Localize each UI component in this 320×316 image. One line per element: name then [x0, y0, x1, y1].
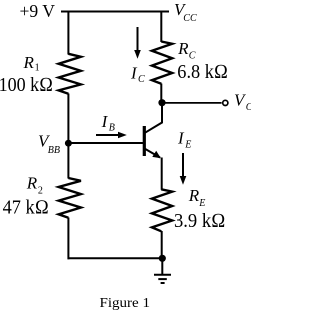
- svg-text:47 kΩ: 47 kΩ: [3, 197, 49, 219]
- label IC: [130, 64, 145, 85]
- svg-text:C: C: [246, 102, 251, 113]
- node VBB junction dot: [65, 140, 72, 147]
- wire right branch upper: [160, 11, 162, 43]
- label VCC: [174, 0, 197, 24]
- label RC: [177, 39, 196, 61]
- label VBB: [38, 132, 60, 156]
- svg-text:6.8 kΩ: 6.8 kΩ: [177, 61, 228, 83]
- transistor Q1 base bar: [143, 126, 146, 156]
- resistor RC: [152, 42, 172, 84]
- wire left branch upper: [67, 11, 69, 55]
- svg-text:CC: CC: [183, 13, 197, 24]
- svg-text:R: R: [23, 53, 35, 72]
- wire emitter down: [161, 158, 163, 190]
- svg-text:3.9 kΩ: 3.9 kΩ: [174, 210, 225, 232]
- wire collector of transistor: [145, 100, 162, 133]
- label IB: [101, 112, 115, 133]
- wire left branch middle: [67, 94, 69, 179]
- label IE: [177, 128, 191, 150]
- label VC: [234, 91, 253, 113]
- wire bottom rail: [68, 257, 163, 259]
- label R1: [23, 53, 40, 73]
- svg-text:R: R: [177, 39, 189, 58]
- svg-text:C: C: [189, 50, 196, 61]
- label RE: [188, 186, 206, 209]
- svg-text:1: 1: [35, 62, 40, 73]
- terminal VC open circle: [223, 100, 228, 105]
- node emitter-ground junction dot: [159, 255, 166, 262]
- resistor R2: [59, 178, 81, 218]
- svg-text:100 kΩ: 100 kΩ: [0, 74, 53, 96]
- label R2: [26, 174, 43, 197]
- arrow IC: [134, 27, 141, 59]
- wire RC bottom lead: [160, 84, 162, 105]
- ground: [154, 258, 171, 283]
- svg-text:2: 2: [38, 186, 43, 197]
- wire to VC terminal: [162, 102, 222, 104]
- resistor R1: [59, 54, 81, 94]
- node collector junction dot: [158, 99, 165, 106]
- svg-text:B: B: [109, 123, 115, 134]
- transistor Q1 emitter with arrowhead: [145, 149, 161, 159]
- svg-text:+9 V: +9 V: [20, 1, 56, 21]
- svg-text:C: C: [138, 74, 145, 85]
- resistor RE: [152, 189, 172, 231]
- wire left branch lower: [67, 218, 69, 260]
- svg-text:E: E: [184, 140, 191, 151]
- arrow IE: [180, 153, 187, 185]
- svg-text:Figure 1: Figure 1: [100, 296, 151, 311]
- wire base: [68, 142, 143, 144]
- wire top rail VCC: [61, 11, 169, 13]
- svg-text:R: R: [26, 174, 38, 193]
- arrow IB: [96, 132, 127, 139]
- svg-text:E: E: [198, 198, 205, 209]
- svg-text:BB: BB: [48, 145, 60, 156]
- svg-text:R: R: [188, 186, 200, 205]
- wire RE bottom lead: [161, 231, 163, 258]
